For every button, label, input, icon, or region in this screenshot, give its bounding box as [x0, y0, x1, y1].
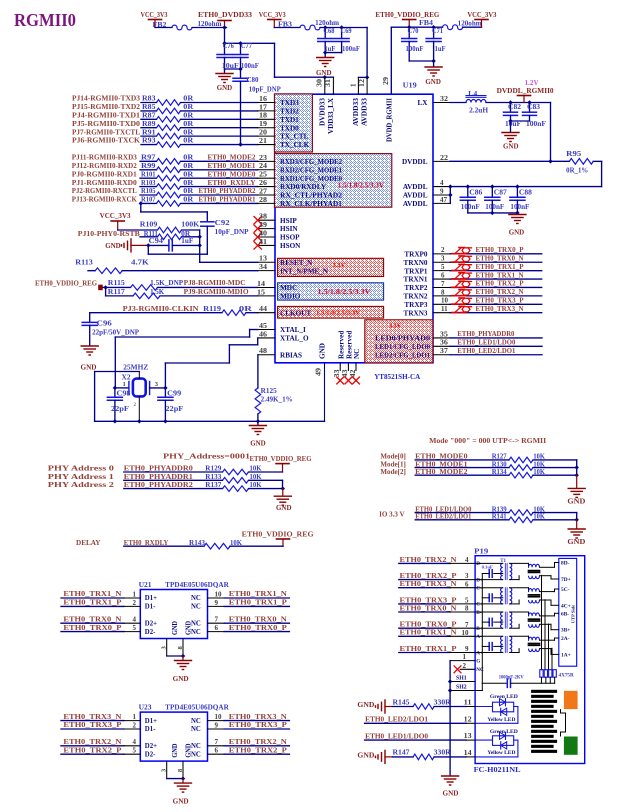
svg-text:DELAY: DELAY: [76, 539, 101, 547]
svg-text:TXD0: TXD0: [280, 124, 299, 132]
svg-text:PJ13-RGMII0-RXCK: PJ13-RGMII0-RXCK: [72, 196, 137, 204]
svg-text:INT_N/PME_N: INT_N/PME_N: [280, 267, 329, 275]
svg-text:330R: 330R: [434, 750, 451, 757]
svg-text:7D+: 7D+: [561, 577, 571, 583]
svg-text:26: 26: [259, 179, 268, 187]
svg-text:R87: R87: [142, 113, 156, 120]
svg-text:6: 6: [215, 747, 219, 755]
svg-text:ETH0_TRX0_P: ETH0_TRX0_P: [400, 621, 458, 629]
svg-text:29: 29: [382, 76, 390, 85]
svg-text:5C-: 5C-: [561, 587, 570, 593]
svg-text:ETH0_TRX2_N: ETH0_TRX2_N: [229, 738, 288, 746]
svg-text:R91: R91: [142, 129, 156, 136]
svg-text:C-: C-: [476, 586, 482, 592]
svg-text:ETH0_TRX2_N: ETH0_TRX2_N: [400, 556, 458, 564]
svg-text:NC: NC: [191, 604, 201, 611]
svg-text:GND: GND: [425, 78, 441, 86]
svg-text:C98: C98: [117, 390, 132, 397]
svg-text:ETH0_TRX1_N: ETH0_TRX1_N: [400, 629, 458, 637]
svg-text:ETH0_TRX2_P: ETH0_TRX2_P: [476, 280, 525, 288]
svg-text:ETH0_RXDLY: ETH0_RXDLY: [208, 179, 257, 187]
svg-text:PHY Address 1: PHY Address 1: [48, 473, 115, 481]
svg-text:ETH0_VDDIO_REG: ETH0_VDDIO_REG: [35, 280, 97, 288]
svg-text:4: 4: [440, 179, 444, 187]
svg-text:5: 5: [133, 747, 137, 755]
svg-text:11: 11: [441, 305, 448, 313]
svg-text:GND: GND: [357, 701, 374, 709]
svg-text:HSIN: HSIN: [280, 225, 298, 233]
svg-text:4: 4: [133, 738, 137, 746]
svg-text:GND: GND: [173, 675, 189, 683]
svg-text:3: 3: [441, 255, 445, 263]
svg-text:2: 2: [133, 599, 137, 607]
svg-text:Green LED: Green LED: [490, 729, 518, 735]
svg-text:1: 1: [349, 83, 357, 87]
svg-text:0R: 0R: [183, 104, 193, 111]
svg-text:0R: 0R: [183, 113, 193, 120]
svg-text:RX_CTL/PHYAD2: RX_CTL/PHYAD2: [280, 192, 342, 200]
svg-text:1: 1: [123, 381, 126, 388]
svg-text:100nF: 100nF: [241, 63, 259, 70]
svg-text:R147: R147: [393, 750, 411, 757]
svg-text:120ohm: 120ohm: [315, 20, 339, 27]
svg-text:PJ6-RGMII0-TXCK: PJ6-RGMII0-TXCK: [72, 137, 140, 145]
svg-text:U21: U21: [139, 581, 152, 589]
svg-text:ETH0_TRX3_N: ETH0_TRX3_N: [63, 713, 122, 721]
svg-text:100K: 100K: [181, 222, 200, 229]
svg-text:D2-: D2-: [145, 629, 156, 636]
svg-text:7: 7: [441, 280, 445, 288]
svg-text:34: 34: [259, 263, 268, 271]
svg-text:GND: GND: [316, 69, 332, 77]
svg-text:R103: R103: [141, 180, 156, 187]
svg-text:7: 7: [465, 621, 469, 629]
svg-text:ETH0_LED1/LDO0: ETH0_LED1/LDO0: [365, 733, 428, 741]
svg-text:ETH0_TRX0_N: ETH0_TRX0_N: [476, 254, 525, 262]
svg-text:39: 39: [259, 221, 268, 229]
svg-text:TXD2: TXD2: [280, 108, 299, 116]
svg-text:2.2uH: 2.2uH: [469, 108, 489, 115]
svg-text:B+: B+: [476, 626, 482, 632]
svg-text:TX_CTL: TX_CTL: [280, 133, 309, 141]
svg-text:0R: 0R: [183, 188, 193, 195]
svg-text:D2-: D2-: [145, 751, 156, 758]
svg-text:C77: C77: [241, 43, 253, 50]
svg-text:SH2: SH2: [456, 684, 467, 690]
svg-text:IO 3.3 V: IO 3.3 V: [379, 510, 405, 518]
svg-text:R89: R89: [142, 121, 156, 128]
svg-text:11: 11: [464, 699, 473, 707]
svg-text:1.5K: 1.5K: [150, 289, 165, 296]
svg-text:ETH0_TRX1_N: ETH0_TRX1_N: [63, 590, 122, 598]
svg-text:PJ5-RGMII0-TXD0: PJ5-RGMII0-TXD0: [72, 120, 140, 128]
svg-text:GND: GND: [250, 440, 266, 448]
svg-text:MDC: MDC: [280, 284, 297, 292]
svg-text:330R: 330R: [434, 699, 451, 706]
svg-text:C82: C82: [508, 104, 522, 111]
svg-text:1.5/1.8/2.5/3.3V: 1.5/1.8/2.5/3.3V: [318, 288, 371, 296]
svg-text:B-: B-: [476, 610, 481, 616]
svg-text:PJ14-RGMII0-TXD3: PJ14-RGMII0-TXD3: [72, 95, 140, 103]
svg-text:1A+: 1A+: [561, 652, 571, 658]
svg-text:NC: NC: [191, 595, 201, 602]
svg-text:36: 36: [440, 339, 449, 347]
svg-text:GND: GND: [186, 621, 193, 635]
svg-text:PJ3-RGMII0-CLKIN: PJ3-RGMII0-CLKIN: [123, 305, 200, 313]
svg-text:ETH0_PHYADDR1: ETH0_PHYADDR1: [199, 196, 256, 204]
svg-text:GND: GND: [81, 364, 97, 372]
svg-text:PJ9-RGMII0-MDIO: PJ9-RGMII0-MDIO: [184, 288, 249, 296]
svg-text:100nF: 100nF: [342, 46, 360, 53]
svg-text:10pF_DNP: 10pF_DNP: [215, 229, 249, 236]
svg-text:GND: GND: [173, 798, 189, 806]
svg-text:10: 10: [462, 629, 470, 637]
svg-text:ETH0_TRX2_P: ETH0_TRX2_P: [400, 572, 458, 580]
svg-text:GND: GND: [567, 498, 585, 506]
svg-text:TRXP3: TRXP3: [404, 301, 428, 309]
svg-text:ETH0_TRX3_P: ETH0_TRX3_P: [63, 721, 122, 729]
svg-text:13: 13: [464, 732, 473, 740]
svg-text:R105: R105: [141, 188, 156, 195]
svg-text:HSON: HSON: [280, 242, 301, 250]
svg-text:C88: C88: [519, 189, 533, 196]
svg-text:U23: U23: [139, 703, 152, 711]
svg-text:1.2V: 1.2V: [525, 79, 539, 87]
svg-text:ETH0_LED2/LDO1: ETH0_LED2/LDO1: [365, 716, 428, 724]
svg-text:0.1uF: 0.1uF: [482, 565, 493, 570]
svg-text:D2+: D2+: [145, 743, 157, 750]
svg-text:NC: NC: [476, 667, 484, 673]
svg-text:22pF: 22pF: [111, 406, 129, 413]
svg-text:R145: R145: [393, 699, 411, 706]
svg-text:HSIP: HSIP: [280, 217, 297, 225]
svg-text:D1-: D1-: [145, 726, 156, 733]
svg-text:3: 3: [155, 381, 158, 388]
svg-text:ETH0_MODE0: ETH0_MODE0: [208, 170, 256, 178]
svg-text:ETH0_VDDIO_REG: ETH0_VDDIO_REG: [375, 11, 439, 19]
svg-text:C87: C87: [494, 189, 508, 196]
svg-text:XTAL_I: XTAL_I: [280, 326, 306, 334]
svg-text:ETH0_TRX0_N: ETH0_TRX0_N: [229, 615, 288, 623]
svg-text:C71: C71: [432, 28, 444, 35]
svg-text:TXD1: TXD1: [280, 116, 299, 124]
svg-text:C96: C96: [97, 321, 113, 328]
svg-text:ETH0_TRX3_P: ETH0_TRX3_P: [476, 296, 525, 304]
svg-text:31: 31: [324, 78, 332, 87]
svg-text:R125: R125: [261, 388, 278, 395]
svg-text:0R: 0R: [183, 163, 193, 170]
svg-text:C80: C80: [247, 77, 260, 84]
svg-text:LED2/CFG_LDO1: LED2/CFG_LDO1: [375, 351, 430, 359]
svg-text:NC: NC: [191, 718, 201, 725]
svg-text:3: 3: [465, 572, 469, 580]
svg-text:120ohm: 120ohm: [198, 21, 222, 28]
svg-text:9: 9: [215, 599, 219, 607]
svg-text:1: 1: [463, 653, 467, 661]
svg-text:1.5K_DNP: 1.5K_DNP: [150, 280, 183, 287]
svg-text:GND: GND: [172, 744, 179, 758]
svg-text:GND: GND: [172, 621, 179, 635]
svg-text:0R_1%: 0R_1%: [566, 168, 588, 175]
svg-text:TRXN1: TRXN1: [404, 276, 428, 284]
svg-text:R99: R99: [141, 163, 156, 170]
svg-text:R85: R85: [142, 104, 156, 111]
svg-text:TRXP0: TRXP0: [404, 250, 428, 258]
svg-text:1.5/1.8/2.5/3.3V: 1.5/1.8/2.5/3.3V: [338, 182, 384, 190]
svg-text:1uF: 1uF: [181, 238, 193, 245]
svg-text:ETH0_TRX0_P: ETH0_TRX0_P: [476, 246, 525, 254]
svg-text:R97: R97: [141, 155, 156, 162]
svg-text:27: 27: [259, 187, 268, 195]
svg-text:8D-: 8D-: [561, 561, 570, 567]
svg-text:6: 6: [441, 271, 445, 279]
svg-text:4X75R: 4X75R: [559, 673, 575, 679]
svg-text:ETH0_MODE2: ETH0_MODE2: [208, 154, 256, 162]
svg-text:TPD4E05U06DQAR: TPD4E05U06DQAR: [165, 703, 229, 711]
svg-text:PJ15-RGMII0-TXD2: PJ15-RGMII0-TXD2: [72, 103, 140, 111]
svg-text:PJ2-RGMII0-RXCTL: PJ2-RGMII0-RXCTL: [72, 187, 137, 195]
svg-text:5: 5: [133, 624, 137, 632]
svg-text:7: 7: [215, 738, 219, 746]
svg-text:6: 6: [215, 624, 219, 632]
svg-text:10: 10: [215, 590, 223, 598]
svg-text:GND: GND: [443, 790, 459, 798]
svg-text:ETH0_LED1/LDO0: ETH0_LED1/LDO0: [457, 339, 515, 347]
svg-text:ETH0_VDDIO_REG: ETH0_VDDIO_REG: [250, 455, 312, 463]
svg-text:ETH0_DVDD33: ETH0_DVDD33: [198, 11, 252, 19]
svg-text:RXD1/CFG_MODE0: RXD1/CFG_MODE0: [280, 175, 342, 183]
svg-text:Yellow LED: Yellow LED: [487, 717, 515, 723]
svg-text:33: 33: [333, 369, 341, 378]
svg-text:ETH0_PHYADDR2: ETH0_PHYADDR2: [199, 187, 256, 195]
svg-text:ETH0_TRX0_P: ETH0_TRX0_P: [63, 624, 122, 632]
svg-text:ETH0_TRX1_P: ETH0_TRX1_P: [400, 645, 458, 653]
svg-text:ETH0_TRX2_N: ETH0_TRX2_N: [63, 738, 122, 746]
svg-text:ETH0_TRX3_P: ETH0_TRX3_P: [400, 596, 458, 604]
svg-text:VCC_3V3: VCC_3V3: [141, 11, 168, 19]
svg-text:1000pF-2KV: 1000pF-2KV: [499, 675, 524, 680]
svg-text:100nF: 100nF: [406, 46, 424, 53]
svg-text:ETH0_TRX2_N: ETH0_TRX2_N: [476, 288, 525, 296]
svg-text:AVDDL: AVDDL: [403, 200, 428, 208]
svg-text:ETH0_TRX3_P: ETH0_TRX3_P: [229, 721, 288, 729]
svg-text:3.3V: 3.3V: [333, 262, 346, 269]
svg-text:45: 45: [259, 322, 268, 330]
svg-text:C92: C92: [215, 220, 231, 227]
svg-text:RXD0/RXDLY: RXD0/RXDLY: [280, 183, 327, 191]
svg-text:0R: 0R: [183, 155, 193, 162]
svg-text:ETH0_LED2/LDO1: ETH0_LED2/LDO1: [457, 347, 515, 355]
svg-text:Mode "000" = 000 UTP<-> RGMII: Mode "000" = 000 UTP<-> RGMII: [429, 436, 546, 445]
svg-text:C99: C99: [167, 390, 182, 397]
svg-text:ETH0_MODE1: ETH0_MODE1: [208, 162, 256, 170]
svg-text:21: 21: [259, 137, 268, 145]
svg-text:3B+: 3B+: [561, 628, 570, 634]
svg-text:PJ8-RGMII0-MDC: PJ8-RGMII0-MDC: [184, 279, 246, 287]
svg-text:100nF: 100nF: [526, 121, 546, 128]
svg-text:CLKOUT: CLKOUT: [280, 309, 311, 317]
svg-text:12: 12: [358, 78, 366, 87]
svg-text:LED1/CFG_LDO0: LED1/CFG_LDO0: [375, 343, 430, 351]
svg-text:PHY Address 2: PHY Address 2: [48, 481, 115, 489]
svg-text:1: 1: [133, 590, 137, 598]
svg-text:PJ7-RGMII0-TXCTL: PJ7-RGMII0-TXCTL: [72, 128, 140, 136]
svg-text:R107: R107: [141, 197, 156, 204]
svg-text:9: 9: [215, 721, 219, 729]
svg-text:18: 18: [259, 112, 268, 120]
svg-text:R119: R119: [203, 306, 222, 313]
svg-text:TRXN3: TRXN3: [404, 309, 428, 317]
svg-text:Green LED: Green LED: [490, 694, 518, 700]
svg-text:17: 17: [259, 103, 268, 111]
svg-text:C70: C70: [408, 28, 420, 35]
svg-text:1uF: 1uF: [324, 46, 335, 53]
svg-text:GND: GND: [503, 143, 519, 151]
svg-text:9: 9: [465, 645, 469, 653]
svg-text:14: 14: [464, 749, 473, 757]
svg-text:GND: GND: [357, 752, 374, 760]
svg-text:C76: C76: [223, 43, 235, 50]
svg-text:D1+: D1+: [145, 718, 157, 725]
svg-text:ETH0_TRX3_N: ETH0_TRX3_N: [476, 305, 525, 313]
svg-text:GND: GND: [186, 744, 193, 758]
svg-text:0R: 0R: [183, 129, 193, 136]
svg-text:PHY Address 0: PHY Address 0: [48, 465, 115, 473]
svg-text:D1-: D1-: [145, 604, 156, 611]
svg-text:2A-: 2A-: [561, 636, 570, 642]
svg-text:0R: 0R: [183, 171, 193, 178]
svg-text:ETH0_TRX2_P: ETH0_TRX2_P: [229, 746, 288, 754]
svg-text:RBIAS: RBIAS: [280, 351, 302, 359]
svg-text:RESET_N: RESET_N: [280, 259, 313, 267]
svg-text:YT8521SH-CA: YT8521SH-CA: [374, 372, 421, 381]
svg-text:9: 9: [440, 187, 444, 195]
svg-text:22pF: 22pF: [165, 406, 183, 413]
svg-text:35: 35: [440, 330, 449, 338]
svg-text:0R: 0R: [183, 197, 193, 204]
svg-text:PJ0-RGMII0-RXD1: PJ0-RGMII0-RXD1: [72, 170, 137, 178]
svg-text:15: 15: [257, 288, 266, 296]
svg-text:ETH0_TRX3_N: ETH0_TRX3_N: [229, 713, 288, 721]
svg-text:AVDD33: AVDD33: [352, 98, 360, 126]
svg-text:D1+: D1+: [145, 595, 157, 602]
svg-text:PJ4-RGMII0-TXD1: PJ4-RGMII0-TXD1: [72, 112, 140, 120]
svg-text:2: 2: [133, 721, 137, 729]
svg-text:28: 28: [259, 196, 268, 204]
svg-text:5: 5: [441, 263, 445, 271]
svg-text:100nF: 100nF: [461, 204, 480, 211]
svg-text:C69: C69: [341, 28, 353, 35]
svg-text:ETH0_TRX1_N: ETH0_TRX1_N: [229, 590, 288, 598]
svg-text:R117: R117: [108, 289, 126, 296]
svg-text:AVDDL: AVDDL: [403, 183, 428, 191]
svg-text:VCC_3V3: VCC_3V3: [100, 212, 131, 220]
svg-text:LED0/PHYAD0: LED0/PHYAD0: [375, 335, 430, 343]
svg-text:20: 20: [259, 129, 268, 137]
svg-text:ETH0_TRX1_N: ETH0_TRX1_N: [476, 271, 525, 279]
svg-text:1uF: 1uF: [435, 46, 446, 53]
svg-text:8: 8: [465, 605, 469, 613]
svg-text:VDD33_LX: VDD33_LX: [327, 97, 335, 134]
svg-text:ETH0_PHYADDR2: ETH0_PHYADDR2: [124, 481, 193, 489]
svg-text:1: 1: [133, 713, 137, 721]
svg-text:U19: U19: [403, 81, 417, 89]
svg-text:ETH0_PHYADDR1: ETH0_PHYADDR1: [124, 473, 193, 481]
svg-text:2.49K_1%: 2.49K_1%: [261, 397, 293, 404]
svg-text:GND: GND: [319, 343, 327, 359]
svg-text:0R: 0R: [239, 306, 252, 313]
svg-text:C94: C94: [149, 238, 164, 245]
svg-text:38: 38: [259, 213, 268, 221]
svg-text:TPD4E05U06DQAR: TPD4E05U06DQAR: [165, 581, 229, 589]
svg-text:ETH0_TRX2_P: ETH0_TRX2_P: [63, 746, 122, 754]
svg-text:TRXP1: TRXP1: [404, 267, 428, 275]
svg-text:LX: LX: [418, 99, 429, 107]
svg-text:ETH0_TRX0_N: ETH0_TRX0_N: [63, 615, 122, 623]
svg-text:Yellow LED: Yellow LED: [487, 750, 515, 756]
svg-text:R101: R101: [141, 171, 156, 178]
svg-text:14: 14: [257, 280, 266, 288]
svg-text:GND: GND: [105, 242, 121, 250]
svg-text:GND: GND: [217, 84, 233, 92]
svg-text:10: 10: [215, 713, 223, 721]
svg-text:4: 4: [465, 556, 469, 564]
svg-text:47: 47: [440, 196, 448, 204]
svg-text:TRXP2: TRXP2: [404, 284, 428, 292]
svg-text:PHY_Address=0001: PHY_Address=0001: [163, 453, 251, 461]
svg-text:VCC_3V3: VCC_3V3: [259, 11, 286, 19]
svg-text:RGMII0: RGMII0: [14, 10, 76, 30]
svg-text:0R: 0R: [183, 180, 193, 187]
svg-text:R113: R113: [75, 259, 93, 266]
svg-text:46: 46: [259, 330, 268, 338]
svg-text:XTAL_O: XTAL_O: [280, 335, 309, 343]
svg-text:TRXN2: TRXN2: [404, 292, 428, 300]
svg-text:8: 8: [441, 288, 445, 296]
svg-text:DVDD33: DVDD33: [319, 98, 327, 126]
svg-text:HSOP: HSOP: [280, 234, 300, 242]
svg-text:P19: P19: [474, 547, 488, 555]
svg-text:C86: C86: [469, 189, 483, 196]
svg-text:2: 2: [463, 662, 467, 670]
svg-text:10uF: 10uF: [505, 121, 521, 128]
svg-text:R109: R109: [140, 222, 158, 229]
svg-text:2: 2: [441, 246, 445, 254]
svg-text:R95: R95: [566, 151, 582, 158]
svg-text:25MHZ: 25MHZ: [123, 365, 148, 372]
svg-text:120ohm: 120ohm: [458, 21, 482, 28]
svg-text:48: 48: [259, 347, 268, 355]
svg-text:22pF/50V_DNP: 22pF/50V_DNP: [92, 330, 139, 337]
svg-text:UTP Side: UTP Side: [571, 605, 576, 624]
svg-text:PJ11-RGMII0-RXD3: PJ11-RGMII0-RXD3: [72, 154, 137, 162]
svg-text:1.5/1.8/2.5/3.3V: 1.5/1.8/2.5/3.3V: [316, 310, 360, 317]
svg-text:10: 10: [441, 297, 449, 305]
svg-text:4.7K: 4.7K: [131, 259, 149, 266]
svg-text:ETH0_TRX1_P: ETH0_TRX1_P: [476, 263, 525, 271]
svg-text:41: 41: [259, 238, 268, 246]
svg-text:12: 12: [464, 715, 473, 723]
svg-text:ETH0_TRX0_P: ETH0_TRX0_P: [229, 624, 288, 632]
svg-text:TXD3: TXD3: [280, 99, 299, 107]
svg-text:RXD2/CFG_MODE1: RXD2/CFG_MODE1: [280, 166, 342, 174]
svg-text:0R: 0R: [183, 138, 193, 145]
svg-text:G: G: [476, 658, 480, 664]
svg-text:VCC_3V3: VCC_3V3: [467, 11, 496, 19]
svg-text:Mode[2]: Mode[2]: [380, 468, 406, 476]
svg-text:D2+: D2+: [145, 620, 157, 627]
svg-text:AVDDL: AVDDL: [403, 192, 428, 200]
